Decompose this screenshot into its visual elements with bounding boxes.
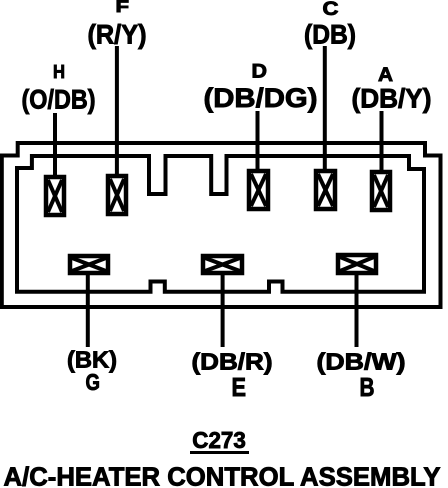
svg-text:(DB): (DB) xyxy=(304,20,356,50)
svg-text:C273: C273 xyxy=(192,427,246,453)
svg-text:F: F xyxy=(116,0,130,16)
svg-text:(R/Y): (R/Y) xyxy=(88,20,147,50)
svg-text:(DB/W): (DB/W) xyxy=(317,349,406,375)
svg-text:D: D xyxy=(252,62,268,83)
svg-text:E: E xyxy=(232,374,247,402)
svg-text:C: C xyxy=(323,0,339,20)
svg-text:G: G xyxy=(86,369,101,395)
svg-text:A/C-HEATER CONTROL ASSEMBLY: A/C-HEATER CONTROL ASSEMBLY xyxy=(4,464,441,488)
svg-text:(O/DB): (O/DB) xyxy=(22,85,96,115)
svg-text:B: B xyxy=(360,374,375,402)
svg-text:H: H xyxy=(53,62,65,82)
svg-text:(DB/R): (DB/R) xyxy=(192,349,273,375)
svg-text:(DB/DG): (DB/DG) xyxy=(204,83,318,113)
svg-text:(DB/Y): (DB/Y) xyxy=(352,84,432,114)
